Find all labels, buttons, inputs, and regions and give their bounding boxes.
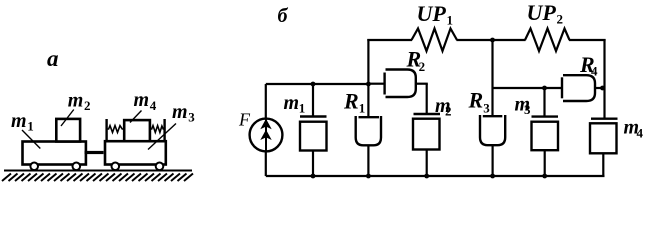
svg-text:1: 1 bbox=[447, 13, 454, 28]
cart m3 body bbox=[105, 141, 166, 164]
capacitor m4 box plate bbox=[590, 123, 617, 153]
junction dot R4 right bbox=[600, 86, 605, 91]
capacitor m3 wire top bbox=[543, 88, 545, 116]
svg-text:R: R bbox=[468, 88, 484, 113]
damper R4 piston bbox=[561, 77, 563, 98]
resistor UP1 bbox=[412, 29, 458, 52]
damper R2 wire right bbox=[416, 83, 428, 85]
svg-text:F: F bbox=[238, 110, 251, 130]
svg-text:3: 3 bbox=[524, 102, 531, 117]
pointer m3 bbox=[148, 124, 176, 150]
damper R1 wire top bbox=[367, 84, 369, 117]
svg-text:m: m bbox=[134, 89, 150, 111]
node A junction dot at m1 bbox=[311, 82, 316, 87]
capacitor m1 box plate bbox=[300, 122, 327, 151]
resistor UP2 bbox=[525, 29, 570, 52]
svg-text:UP: UP bbox=[527, 0, 557, 25]
damper R2 piston bbox=[383, 73, 385, 95]
damper R3 wire top bbox=[491, 40, 493, 116]
junction dot m3 bbox=[542, 86, 547, 91]
wheel cart2 left bbox=[112, 163, 120, 171]
wheel cart1 right bbox=[73, 163, 81, 171]
svg-text:a: a bbox=[47, 46, 59, 71]
damper R1 cylinder bbox=[356, 116, 381, 145]
capacitor m4 wire bottom bbox=[602, 153, 604, 176]
damper R2 wire left bbox=[368, 83, 384, 85]
wire vertical up to UP1 bbox=[367, 39, 369, 84]
bus junction dot R1 bbox=[366, 174, 371, 179]
node B junction dot bbox=[490, 38, 495, 43]
svg-text:б: б bbox=[278, 5, 289, 27]
wire tee node B to R4/m3 bbox=[493, 87, 562, 89]
capacitor m3 box plate bbox=[532, 122, 559, 151]
svg-text:3: 3 bbox=[188, 110, 195, 125]
capacitor m2 wire top bbox=[426, 84, 428, 114]
capacitor m1 wire bottom bbox=[312, 151, 314, 177]
svg-text:UP: UP bbox=[417, 1, 447, 26]
svg-text:R: R bbox=[343, 89, 359, 114]
spring left (m4) bbox=[107, 126, 125, 133]
wire right vertical (UP2 to m4) bbox=[603, 39, 605, 118]
source F inner wire bbox=[265, 120, 267, 152]
capacitor m1 wire top bbox=[312, 84, 314, 116]
capacitor m2 box plate bbox=[413, 119, 440, 150]
pointer m4 bbox=[130, 111, 142, 123]
svg-text:4: 4 bbox=[150, 98, 157, 113]
svg-text:m: m bbox=[68, 89, 84, 111]
wire top rail right segment bbox=[569, 39, 606, 41]
capacitor m3 wire bottom bbox=[544, 150, 546, 176]
wheel cart2 right bbox=[156, 163, 164, 171]
capacitor m3 plate bbox=[532, 115, 559, 117]
source F wires bbox=[265, 84, 267, 119]
source F circle bbox=[250, 119, 283, 152]
damper R3 wire bottom bbox=[492, 145, 494, 177]
svg-text:2: 2 bbox=[419, 59, 426, 74]
post right on cart m3 bbox=[163, 119, 165, 141]
source F arrowhead upper bbox=[260, 119, 271, 129]
mass m4 box bbox=[124, 120, 150, 141]
svg-text:2: 2 bbox=[84, 98, 91, 113]
damper R1 wire bottom bbox=[367, 146, 369, 177]
svg-text:m: m bbox=[284, 92, 300, 114]
bus junction dot m3 bbox=[542, 174, 547, 179]
svg-text:3: 3 bbox=[483, 101, 490, 116]
svg-text:2: 2 bbox=[445, 103, 452, 118]
svg-text:4: 4 bbox=[637, 125, 644, 140]
capacitor m1 plate bbox=[300, 115, 327, 117]
wheel cart1 left bbox=[30, 163, 38, 171]
wire top rail middle segment bbox=[457, 39, 526, 41]
svg-text:4: 4 bbox=[591, 64, 598, 79]
node A junction dot at R1 bbox=[366, 82, 371, 87]
wire bottom bus bbox=[266, 175, 605, 177]
mass m2 box bbox=[56, 119, 80, 142]
capacitor m2 plate bbox=[414, 113, 441, 115]
wire top rail left segment bbox=[367, 39, 412, 41]
capacitor m2 wire bottom bbox=[426, 150, 428, 177]
pointer m1 bbox=[22, 130, 40, 149]
svg-text:m: m bbox=[11, 110, 27, 132]
link between carts bbox=[85, 151, 104, 154]
source F arrowhead lower bbox=[260, 130, 271, 140]
svg-text:1: 1 bbox=[299, 100, 306, 115]
bus junction dot m1 bbox=[311, 174, 316, 179]
pointer m2 bbox=[61, 110, 74, 127]
svg-text:1: 1 bbox=[359, 101, 366, 116]
svg-text:1: 1 bbox=[27, 119, 34, 134]
damper R4 wire right bbox=[596, 87, 605, 89]
cart m1 body bbox=[23, 142, 86, 165]
svg-text:m: m bbox=[172, 101, 188, 123]
bus junction dot R3 bbox=[490, 174, 495, 179]
capacitor m4 plate bbox=[591, 117, 618, 119]
damper R4 cylinder bbox=[563, 75, 595, 101]
svg-text:2: 2 bbox=[557, 12, 564, 27]
spring right (m4) bbox=[150, 126, 165, 133]
bus junction dot m2 bbox=[424, 174, 429, 179]
wire node A top (F to R1 branch) bbox=[266, 83, 369, 85]
damper R1 piston bbox=[359, 116, 380, 118]
damper R3 piston bbox=[483, 115, 503, 117]
damper R3 cylinder bbox=[480, 115, 505, 145]
damper R2 cylinder bbox=[386, 70, 416, 98]
post left on cart m3 bbox=[105, 119, 107, 141]
ground bbox=[2, 171, 193, 182]
